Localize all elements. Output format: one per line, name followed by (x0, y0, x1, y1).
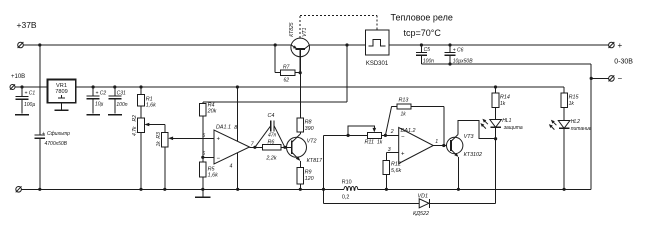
svg-text:R2: R2 (132, 115, 138, 122)
svg-text:питание: питание (571, 126, 592, 132)
svg-text:R9: R9 (305, 169, 312, 175)
op-amp DA1.1 (202, 125, 255, 170)
svg-text:+10В: +10В (11, 74, 25, 80)
wire R3 wiper to DA1.1 pin5 (172, 137, 214, 139)
resistor R4 20k (200, 102, 217, 158)
wire output rail relay to + terminal (389, 44, 609, 46)
svg-text:−: − (618, 74, 623, 83)
capacitor C1 100µ (16, 87, 36, 114)
capacitor C31 100n (108, 87, 127, 114)
svg-text:R10: R10 (342, 179, 352, 185)
dashed thermal coupling VT1 to relay (300, 15, 377, 38)
svg-text:62: 62 (284, 77, 290, 83)
transistor VT2 КТ817 (287, 134, 324, 168)
wire +10V rail from VR1 to right (76, 86, 564, 88)
svg-text:VD1: VD1 (418, 193, 429, 199)
svg-text:4: 4 (230, 163, 233, 169)
capacitor C4 47n (255, 113, 285, 147)
resistor R8 390 (297, 49, 314, 134)
svg-text:R1: R1 (146, 96, 153, 102)
wire minus terminal stub (591, 77, 608, 79)
svg-text:1,6k: 1,6k (146, 103, 156, 109)
potentiometer R2 4,7k (132, 115, 165, 189)
wire DA1.1 pin4 (237, 153, 239, 189)
resistor R10 0,2 wirewound (342, 179, 358, 200)
svg-text:R12: R12 (391, 162, 401, 168)
svg-text:КТ817: КТ817 (307, 158, 323, 164)
svg-text:C4: C4 (268, 113, 275, 119)
wire +37V rail (23, 44, 291, 46)
svg-text:20k: 20k (207, 108, 217, 114)
wire DA1.2 pin3 (386, 151, 398, 153)
svg-text:защита: защита (503, 125, 523, 131)
wire minus column (590, 64, 592, 189)
resistor R15 1k (561, 87, 580, 121)
svg-text:10µ: 10µ (95, 102, 104, 108)
capacitor C2 10µ (87, 87, 107, 114)
svg-text:+: + (401, 151, 405, 157)
wire current sense left leg (323, 135, 325, 203)
svg-text:100µ: 100µ (24, 102, 35, 108)
regulator VR1 7809 (48, 80, 76, 103)
svg-text:R7: R7 (283, 65, 290, 71)
svg-text:2,2k: 2,2k (265, 156, 276, 162)
ground below VR1 (55, 103, 69, 111)
ground below C1 (15, 114, 29, 116)
svg-text:8: 8 (234, 125, 237, 131)
transistor VT3 КТ3102 (447, 134, 483, 158)
potentiometer R3 1k (156, 132, 173, 189)
svg-text:0,2: 0,2 (342, 194, 350, 200)
svg-text:R6: R6 (268, 140, 275, 146)
svg-text:C31: C31 (117, 90, 126, 96)
resistor R13 1k (385, 98, 443, 146)
svg-text:DA1.1: DA1.1 (216, 125, 231, 131)
resistor R7 62 (275, 45, 300, 83)
wire DA1.1 pin8 power (236, 87, 238, 141)
svg-text:+: + (618, 41, 623, 50)
svg-text:0-30В: 0-30В (614, 58, 633, 65)
svg-text:R11: R11 (365, 140, 375, 146)
ground below DA1.1 via R5 (195, 189, 211, 197)
capacitor C6 10µx50В (444, 45, 473, 65)
svg-text:+: + (42, 131, 45, 137)
wire +10V to VR1 (15, 86, 48, 88)
capacitor Сфильтр 4700x50В (35, 45, 71, 189)
svg-text:390: 390 (305, 126, 314, 132)
LED HL1 защита (480, 118, 522, 139)
svg-text:120: 120 (305, 176, 314, 182)
ground below C2 (86, 114, 100, 116)
svg-text:5,6k: 5,6k (391, 168, 401, 174)
svg-text:R8: R8 (305, 120, 312, 126)
svg-text:R14: R14 (500, 95, 510, 101)
svg-text:1k: 1k (569, 101, 575, 107)
wire output sense tap (203, 45, 347, 102)
svg-text:tcp=70°C: tcp=70°C (404, 28, 442, 38)
op-amp DA1.2 (388, 128, 439, 164)
svg-text:VT2: VT2 (307, 138, 317, 144)
wire DA1.2 pin2 row (324, 134, 368, 136)
svg-text:−: − (401, 135, 405, 141)
svg-text:7809: 7809 (55, 89, 67, 95)
wire DA1.1 output node (250, 146, 263, 148)
terminal +37В input (17, 20, 37, 48)
wire DA1.2 output to VT3 (433, 145, 447, 147)
resistor R1 1,6k (138, 87, 156, 118)
resistor R14 1k (492, 87, 510, 120)
terminal +10В input (10, 74, 25, 90)
wire VT1 collector to relay (309, 44, 365, 46)
svg-text:R15: R15 (569, 95, 580, 101)
svg-text:+ C2: + C2 (96, 90, 107, 96)
svg-text:1k: 1k (401, 112, 407, 118)
svg-text:R3: R3 (156, 132, 162, 139)
svg-text:1k: 1k (500, 101, 506, 107)
svg-text:DA1.2: DA1.2 (401, 128, 416, 134)
wire C5 C6 bottom to minus column (421, 63, 591, 65)
svg-text:1k: 1k (156, 141, 162, 147)
svg-text:47n: 47n (268, 132, 277, 138)
wire bottom rail left of R10 (21, 188, 344, 190)
svg-text:VT3: VT3 (464, 134, 474, 140)
terminal output + (609, 41, 623, 50)
diode VD1 КД522 (413, 193, 429, 217)
resistor R9 120 (297, 168, 314, 190)
svg-text:4,7k: 4,7k (132, 126, 138, 136)
thermal relay KSD301 (365, 30, 389, 67)
svg-text:Сфильтр: Сфильтр (47, 131, 70, 137)
resistor R5 1,6k (200, 157, 219, 189)
svg-text:+: + (217, 137, 221, 143)
wire DA1.1 pin6 (203, 156, 214, 158)
svg-text:Тепловое реле: Тепловое реле (391, 13, 453, 23)
svg-text:+ C6: + C6 (453, 48, 464, 54)
LED HL2 питание (549, 119, 592, 190)
transistor VT1 КТ825 (289, 22, 310, 72)
svg-text:2: 2 (390, 129, 394, 135)
svg-text:КД522: КД522 (413, 211, 429, 217)
svg-text:1,6k: 1,6k (208, 173, 218, 179)
svg-text:КТ825: КТ825 (289, 22, 295, 37)
terminal bottom left − (16, 186, 22, 192)
ground below C31 (108, 114, 122, 116)
svg-text:+37В: +37В (17, 20, 37, 30)
svg-text:100n: 100n (116, 102, 127, 108)
svg-text:−: − (217, 156, 221, 162)
svg-text:KSD301: KSD301 (366, 61, 389, 67)
svg-text:VT1: VT1 (302, 27, 308, 36)
capacitor C5 100n (416, 45, 434, 65)
svg-text:КТ3102: КТ3102 (464, 152, 482, 158)
svg-text:HL2: HL2 (571, 119, 580, 125)
svg-text:+ C1: + C1 (25, 91, 36, 97)
svg-text:C5: C5 (424, 47, 431, 53)
wire VT3 emitter down (457, 157, 459, 189)
wire lower rail VD1 net (324, 202, 420, 204)
terminal output − (609, 74, 623, 83)
resistor R6 2,2k (263, 140, 292, 162)
wire VT3 collector to HL1 (458, 120, 496, 138)
wire bottom rail right of R10 (358, 188, 592, 190)
svg-text:4700x50В: 4700x50В (45, 141, 68, 147)
svg-text:R13: R13 (399, 98, 409, 104)
svg-text:HL1: HL1 (502, 118, 511, 124)
resistor R12 5,6k (383, 152, 401, 189)
svg-text:5: 5 (202, 133, 205, 139)
wire HL1 cathode down to lower rail (495, 139, 497, 204)
svg-text:1: 1 (435, 139, 438, 145)
potentiometer R11 1k (348, 126, 399, 145)
svg-text:1k: 1k (377, 140, 383, 146)
